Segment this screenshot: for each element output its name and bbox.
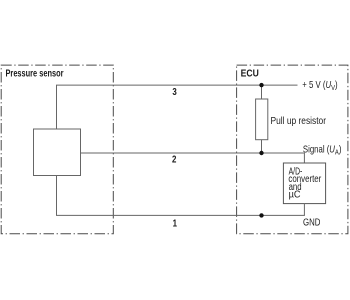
svg-text:1: 1 — [173, 218, 178, 229]
wire: A/D converter ground stub — [303, 204, 305, 216]
svg-text:Pressure sensor: Pressure sensor — [6, 69, 64, 80]
wire 1 (ground line, sensor bottom to GND) — [57, 176, 305, 216]
net label: Signal (UA) — [303, 143, 342, 156]
svg-text:3: 3 — [172, 87, 177, 98]
wire: resistor top stub (from supply node down to resistor) — [261, 85, 263, 99]
wire 2 (signal line, sensor right to A/D converter) — [81, 153, 305, 163]
wire 3 (supply line, sensor top to +5V) — [57, 85, 298, 129]
A/D converter block (µC) — [283, 163, 325, 204]
ECU enclosure (dash-dot box) — [237, 65, 348, 234]
node: ground junction — [259, 213, 263, 217]
svg-text:GND: GND — [303, 217, 320, 228]
svg-text:µC: µC — [289, 190, 301, 201]
node: signal junction — [259, 151, 263, 155]
label inside block: A/D-converter and µC — [288, 166, 321, 200]
net label: + 5 V (Uv) — [302, 79, 337, 92]
resistor R1 (pull up resistor body) — [256, 99, 268, 140]
svg-text:ECU: ECU — [241, 69, 259, 80]
node: supply junction — [259, 83, 263, 87]
sensor element (pressure measuring cell) — [34, 129, 81, 176]
pressure sensor enclosure (dash-dot box) — [1, 65, 113, 234]
wire: resistor bottom stub (resistor down to signal node) — [261, 140, 263, 153]
svg-text:2: 2 — [172, 154, 177, 165]
svg-text:Pull up resistor: Pull up resistor — [271, 116, 327, 127]
